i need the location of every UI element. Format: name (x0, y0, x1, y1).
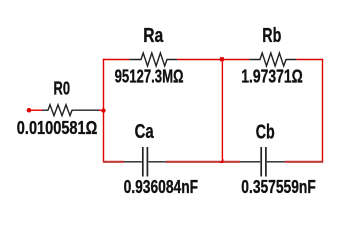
svg-text:95127.3MΩ: 95127.3MΩ (115, 66, 184, 86)
svg-text:R0: R0 (54, 78, 71, 98)
svg-text:0.0100581Ω: 0.0100581Ω (17, 118, 98, 138)
svg-text:Ra: Ra (143, 25, 164, 47)
svg-text:0.357559nF: 0.357559nF (241, 177, 315, 197)
svg-text:1.97371Ω: 1.97371Ω (241, 67, 302, 87)
svg-text:Ca: Ca (135, 121, 155, 143)
svg-text:Rb: Rb (262, 25, 281, 47)
svg-text:0.936084nF: 0.936084nF (124, 177, 199, 197)
svg-text:Cb: Cb (256, 121, 275, 143)
